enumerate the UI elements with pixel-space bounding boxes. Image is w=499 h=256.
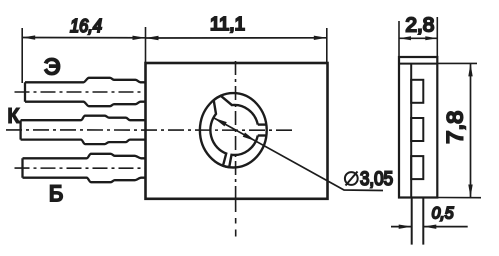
dimension 7,8 extension line bottom (side view bottom extended): [437, 197, 481, 199]
dimension 2,8 extension line left: [398, 21, 400, 57]
dimension 7,8 extension line top: [437, 62, 477, 64]
side view cap line: [399, 63, 437, 65]
side view outline: [399, 57, 437, 198]
body front view (package outline): [146, 63, 328, 199]
lead tab middle: [411, 118, 423, 141]
dimension 7,8 line: [470, 63, 472, 197]
dimension 16,4 extension line left: [21, 28, 23, 83]
slot top edge: [258, 123, 267, 125]
dimension 16,4 arrow left: [22, 35, 35, 39]
dimension 11,1 line: [146, 37, 327, 39]
svg-text:Б: Б: [49, 181, 63, 206]
svg-text:К: К: [7, 106, 19, 128]
dimension 16,4 arrow right: [133, 36, 146, 40]
lead tab top: [411, 80, 423, 103]
dimension 16,4 extension line right (body left edge extended): [145, 27, 147, 63]
hole outline with keyway notches: [210, 96, 257, 167]
lead Э centerline: [15, 91, 147, 93]
leader arrow upper-left: [214, 118, 227, 127]
side view flange line: [410, 64, 412, 198]
svg-text:0,5: 0,5: [432, 204, 454, 223]
dimension 0,5 arrow right (pointing left): [423, 225, 436, 229]
dimension 11,1 extension line right (body right edge extended): [326, 28, 328, 63]
dimension 2,8 arrow left: [399, 36, 411, 40]
dimension 0,5 arrow left (pointing right): [399, 225, 412, 229]
dimension 0,5 extension line right: [422, 198, 424, 245]
svg-text:16,4: 16,4: [70, 16, 102, 36]
dimension 11,1 arrow right: [314, 36, 327, 40]
leader line for hole diameter: [214, 118, 383, 191]
lead Б (base, bottom): [23, 154, 147, 182]
svg-text:7,8: 7,8: [442, 111, 467, 144]
main horizontal centerline (through lead К, body and hole): [6, 129, 295, 131]
outer circle (recess): [200, 93, 267, 167]
slot bottom edge: [258, 134, 267, 136]
dimension 2,8 line: [399, 37, 437, 39]
svg-text:11,1: 11,1: [210, 14, 245, 34]
dimension 2,8 arrow right: [425, 36, 437, 40]
dimension 2,8 extension line right: [436, 17, 438, 57]
dimension 7,8 arrow top: [468, 63, 472, 76]
vertical centerline of hole: [235, 61, 237, 198]
lead tab bottom: [411, 156, 423, 179]
lead Э (emitter, top): [25, 78, 146, 106]
lead Б centerline: [15, 167, 147, 169]
lead К (collector, middle): [21, 116, 146, 144]
dimension 0,5 line with tails: [391, 226, 468, 228]
label diameter 3,05 symbol: [345, 172, 358, 185]
svg-text:3,05: 3,05: [360, 169, 393, 190]
svg-text:Э: Э: [44, 54, 61, 80]
leader arrow lower-right: [243, 133, 256, 142]
dimension 16,4 line: [22, 37, 145, 39]
dimension 7,8 arrow bottom: [468, 185, 472, 198]
dimension 0,5 extension line left: [411, 198, 413, 245]
dimension 11,1 arrow left: [146, 36, 159, 40]
svg-text:2,8: 2,8: [405, 15, 434, 37]
